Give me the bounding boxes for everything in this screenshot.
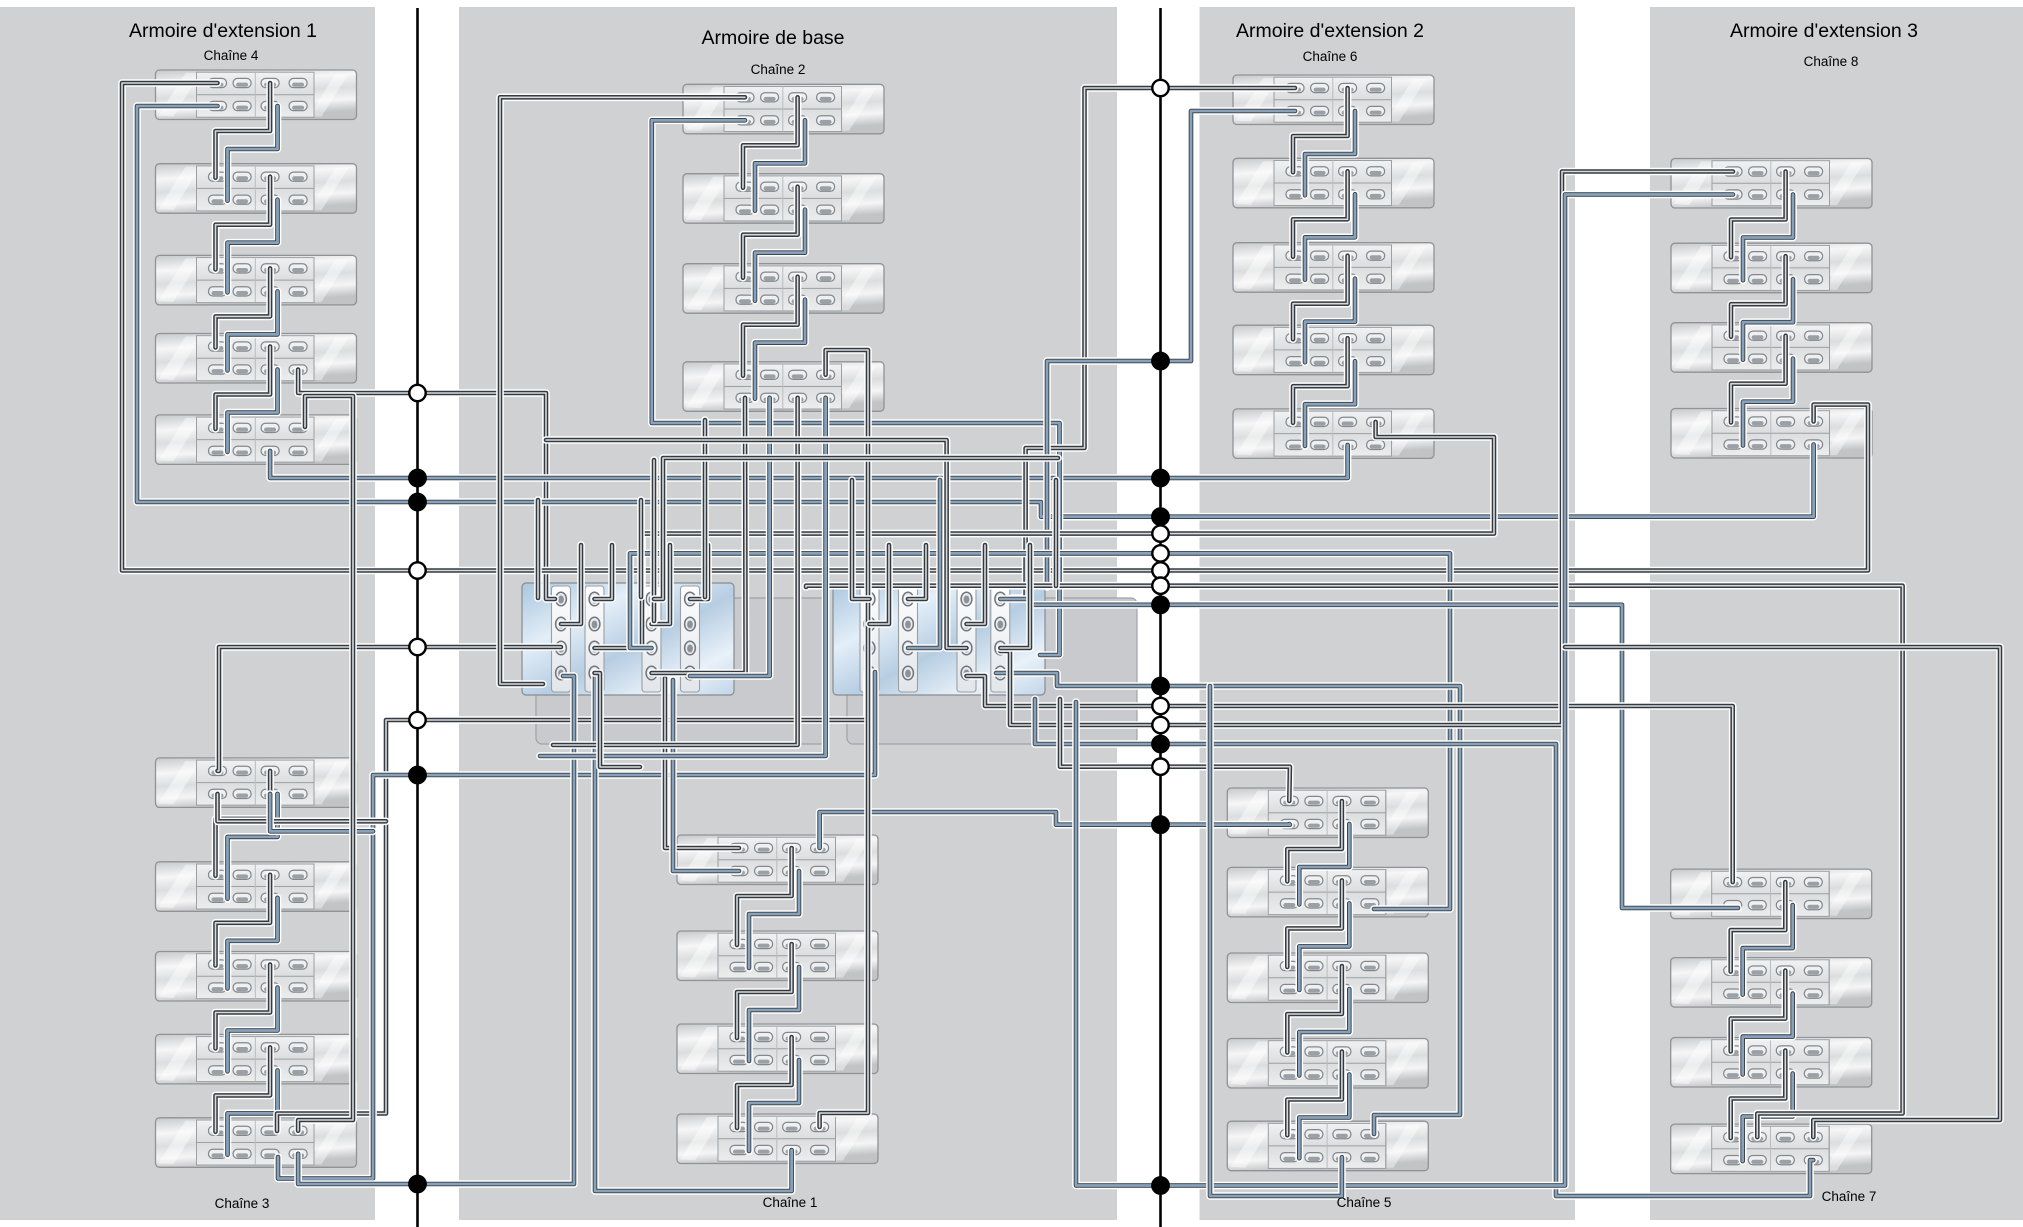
svg-text:Chaîne 5: Chaîne 5: [1337, 1195, 1392, 1210]
svg-text:Chaîne 8: Chaîne 8: [1804, 54, 1859, 69]
svg-text:Armoire de base: Armoire de base: [701, 27, 844, 49]
svg-text:Chaîne 3: Chaîne 3: [215, 1196, 270, 1211]
svg-text:Chaîne 4: Chaîne 4: [204, 48, 259, 63]
svg-text:Armoire d'extension 3: Armoire d'extension 3: [1730, 20, 1918, 42]
svg-text:Armoire d'extension 1: Armoire d'extension 1: [129, 20, 317, 42]
svg-text:Chaîne 2: Chaîne 2: [751, 62, 806, 77]
svg-text:Armoire d'extension 2: Armoire d'extension 2: [1236, 20, 1424, 42]
svg-text:Chaîne 7: Chaîne 7: [1822, 1189, 1877, 1204]
svg-text:Chaîne 1: Chaîne 1: [763, 1195, 818, 1210]
svg-text:Chaîne 6: Chaîne 6: [1303, 49, 1358, 64]
